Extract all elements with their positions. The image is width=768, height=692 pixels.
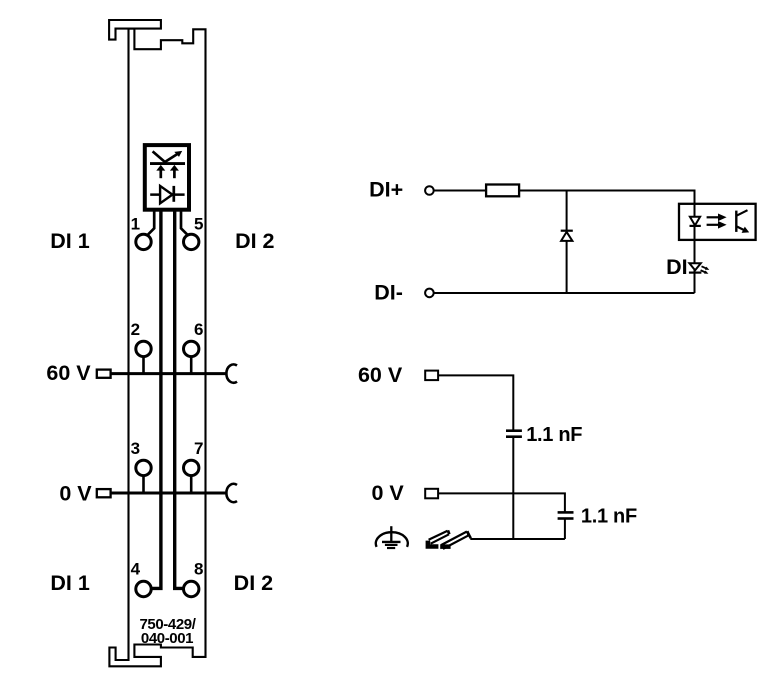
optocoupler box U1 xyxy=(145,145,189,210)
svg-text:6: 6 xyxy=(194,320,203,339)
svg-text:DI 2: DI 2 xyxy=(235,229,274,253)
svg-text:DI-: DI- xyxy=(374,280,403,304)
pin 6 xyxy=(184,341,199,356)
svg-text:8: 8 xyxy=(194,560,203,579)
pin 4 xyxy=(136,581,151,596)
pin 2 stub to 60 V bus xyxy=(142,356,145,374)
terminal square 0 V right xyxy=(425,489,438,499)
earth ground symbol xyxy=(376,526,408,548)
module body outline xyxy=(109,29,205,667)
pin 2 xyxy=(136,341,151,356)
svg-text:4: 4 xyxy=(131,560,141,579)
terminal DI+ xyxy=(425,186,434,195)
svg-text:DI+: DI+ xyxy=(369,178,403,202)
phototransistor Q1 in U2 xyxy=(736,210,749,233)
resistor R1 xyxy=(486,185,519,197)
60 V bus wire across module xyxy=(110,372,227,375)
svg-text:7: 7 xyxy=(194,439,203,458)
svg-text:0 V: 0 V xyxy=(59,482,92,506)
lead from U1 to pin 5 xyxy=(181,210,188,235)
wire DI+ to resistor xyxy=(434,190,486,192)
0 V terminal square left xyxy=(97,489,111,497)
svg-text:DI: DI xyxy=(666,255,688,279)
svg-text:1.1 nF: 1.1 nF xyxy=(581,506,637,528)
svg-text:3: 3 xyxy=(131,439,140,458)
module top mounting tab xyxy=(109,20,161,40)
light arrow 1 in U2 xyxy=(707,214,727,222)
pin 8 xyxy=(184,581,199,596)
light arrow 2 in U2 xyxy=(707,221,727,229)
svg-text:DI 1: DI 1 xyxy=(50,571,89,595)
svg-text:5: 5 xyxy=(194,214,203,233)
0 V rail contact crescent xyxy=(226,484,237,502)
svg-text:0 V: 0 V xyxy=(371,481,404,505)
pin 3 xyxy=(136,460,151,475)
channel 1 up arrow inside U1 xyxy=(156,165,165,178)
wire C2 to ground line xyxy=(564,519,566,539)
wire 0 V to capacitor C2 xyxy=(438,493,565,512)
ground bus wire xyxy=(470,538,565,540)
wire 60 V to capacitor C1 xyxy=(438,375,513,430)
svg-text:DI 2: DI 2 xyxy=(234,571,273,595)
60 V terminal square left xyxy=(97,370,111,378)
pin 6 stub to 60 V bus xyxy=(190,356,193,374)
bus line channel 1 from U1 to pin 4 xyxy=(151,210,161,589)
diode D1 xyxy=(561,231,573,241)
DIN rail symbol xyxy=(426,530,471,549)
0 V bus wire across module xyxy=(110,492,227,495)
wire DI- bottom xyxy=(434,292,695,294)
bus line channel 2 from U1 to pin 8 xyxy=(175,210,184,589)
lead from U1 to pin 1 xyxy=(148,210,155,235)
pin 5 xyxy=(184,234,199,249)
svg-text:DI 1: DI 1 xyxy=(50,229,89,253)
capacitor C1 xyxy=(506,431,522,437)
status LED emission arrow 1 xyxy=(702,266,710,270)
pin 3 stub to 0 V bus xyxy=(142,475,145,493)
svg-text:1: 1 xyxy=(131,214,140,233)
optocoupler box U2 xyxy=(679,204,756,240)
wire through U2 xyxy=(694,204,696,240)
60 V rail contact crescent xyxy=(226,364,237,382)
wire resistor to top right corner xyxy=(519,191,694,205)
status LED D2 xyxy=(689,263,702,272)
wire diode branch vertical xyxy=(566,191,568,294)
wire C1 to ground line xyxy=(512,437,514,539)
terminal DI- xyxy=(425,289,434,298)
pin 7 xyxy=(184,460,199,475)
LED indicator tick arrow inside U1 xyxy=(153,151,183,162)
wire through optocoupler vertical xyxy=(694,203,696,293)
status LED emission arrow 2 xyxy=(701,270,709,274)
svg-text:60 V: 60 V xyxy=(46,361,91,385)
diode symbol inside U1 xyxy=(150,186,184,203)
LED inside U2 xyxy=(690,217,701,226)
pin 7 stub to 0 V bus xyxy=(190,475,193,493)
capacitor C2 xyxy=(558,512,574,518)
svg-text:1.1 nF: 1.1 nF xyxy=(526,424,582,446)
channel 2 up arrow inside U1 xyxy=(170,165,179,178)
pin 1 xyxy=(136,234,151,249)
svg-text:60 V: 60 V xyxy=(358,363,403,387)
svg-text:040-001: 040-001 xyxy=(141,630,193,647)
LED indicator bar inside U1 xyxy=(150,162,185,165)
svg-text:2: 2 xyxy=(131,320,140,339)
terminal square 60 V right xyxy=(425,371,438,381)
